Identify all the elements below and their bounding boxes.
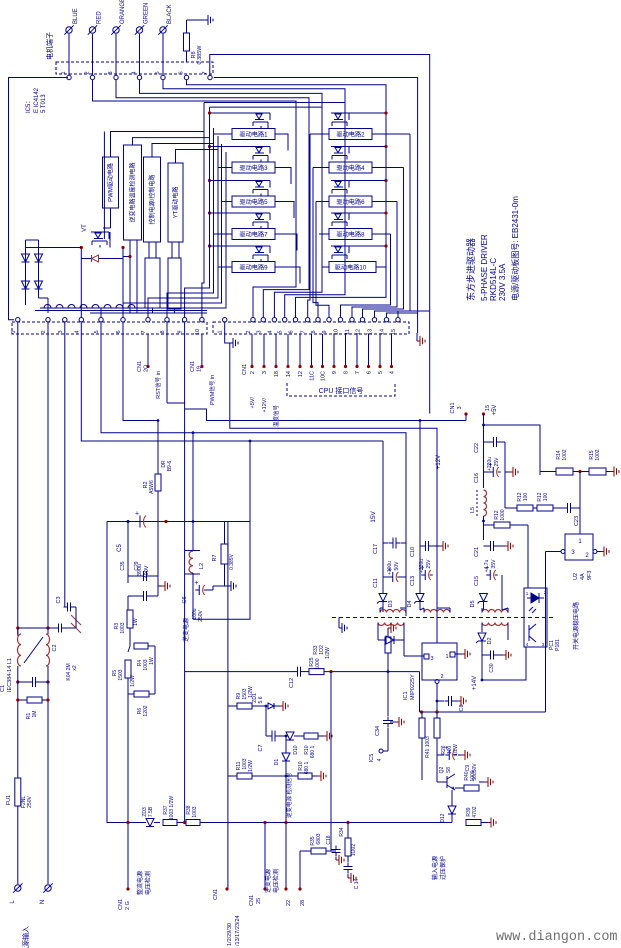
CN3 pin 3 xyxy=(256,318,265,334)
wire middle bus 1 xyxy=(308,134,310,317)
svg-text:9: 9 xyxy=(178,330,184,333)
ground C14 xyxy=(348,873,356,883)
svg-text:C6: C6 xyxy=(182,596,188,603)
wire C12 row xyxy=(185,672,420,712)
svg-text:4: 4 xyxy=(267,330,273,333)
svg-text:+100u: +100u xyxy=(387,561,393,575)
svg-text:IC5: IC5 xyxy=(369,754,375,763)
capacitor C10 xyxy=(410,541,433,557)
svg-text:CPU 接口信号: CPU 接口信号 xyxy=(319,386,364,395)
resistor R3 xyxy=(114,610,139,646)
junction y712 xyxy=(420,710,439,713)
svg-text:+4.7u: +4.7u xyxy=(484,559,490,572)
wire mosfet top rail A xyxy=(204,103,345,284)
diode D2 aux xyxy=(476,633,493,655)
transformer winding 12V xyxy=(420,608,450,613)
wire CN2 pin5 to return xyxy=(101,322,406,616)
wire PC1 pin1 xyxy=(527,525,529,588)
drive circuit block 6 xyxy=(329,196,372,207)
svg-text:22: 22 xyxy=(286,900,292,906)
motor terminal ORANGE xyxy=(111,0,126,62)
junction D1 R11 xyxy=(285,775,288,823)
svg-text:电源输入: 电源输入 xyxy=(21,926,30,948)
resistor R6 xyxy=(128,691,155,717)
svg-text:25: 25 xyxy=(256,898,262,904)
svg-text:+12V/: +12V/ xyxy=(262,398,268,413)
svg-text:RED: RED xyxy=(97,11,103,24)
junction left row 1 xyxy=(208,111,211,114)
svg-text:+5V: +5V xyxy=(492,405,498,416)
connector motor pin 1 xyxy=(61,71,71,79)
wire B1 left drop xyxy=(103,132,105,240)
svg-text:C21: C21 xyxy=(474,547,480,557)
CN1 pin 28 xyxy=(298,851,306,906)
svg-text:CN1: CN1 xyxy=(190,361,196,372)
motor terminal RED xyxy=(88,11,103,62)
block tab B4 xyxy=(168,242,181,313)
svg-text:/13/17/23/24: /13/17/23/24 xyxy=(235,915,241,946)
svg-text:PWM驱动电路: PWM驱动电路 xyxy=(107,163,115,202)
transformer winding 15V xyxy=(380,608,406,613)
op-amp U2 xyxy=(561,534,597,580)
ground C10 xyxy=(432,541,448,551)
capacitor C15 xyxy=(474,559,498,586)
wire left bus 5 xyxy=(123,144,222,317)
svg-text:L5: L5 xyxy=(470,507,476,513)
svg-text:1003: 1003 xyxy=(192,806,198,817)
svg-text:R7: R7 xyxy=(212,554,218,561)
svg-text:100: 100 xyxy=(523,493,529,502)
capacitor C18 xyxy=(326,835,341,860)
svg-text:1: 1 xyxy=(61,71,67,74)
svg-text:6: 6 xyxy=(179,71,185,74)
svg-text:C3: C3 xyxy=(56,596,62,603)
capacitor C14 xyxy=(344,863,361,890)
wire strip3 pin14 stub xyxy=(387,313,418,317)
drive circuit block 2 xyxy=(329,129,372,140)
svg-text:7: 7 xyxy=(202,71,208,74)
svg-text:U2: U2 xyxy=(573,573,579,580)
svg-text:5.6: 5.6 xyxy=(258,696,264,703)
svg-text:680 1: 680 1 xyxy=(304,762,310,775)
diode D12 xyxy=(440,790,456,823)
junction choke xyxy=(16,626,49,683)
svg-text:1O02: 1O02 xyxy=(351,844,357,856)
svg-text:25V: 25V xyxy=(426,559,432,569)
junction R25 xyxy=(329,670,332,673)
junction VT xyxy=(80,246,125,249)
transistor V2 xyxy=(331,113,386,126)
CN1 cpu pin 7 xyxy=(355,334,361,374)
wire x107 down xyxy=(107,522,140,823)
wire motor pin 2 bus xyxy=(93,80,297,317)
label IC5 xyxy=(26,87,47,113)
wire R33 down C34 xyxy=(387,672,389,716)
svg-text:7: 7 xyxy=(141,330,147,333)
svg-text:9F3: 9F3 xyxy=(587,571,593,580)
svg-text:逆变电源: 逆变电源 xyxy=(264,869,272,893)
ground R7 xyxy=(213,581,236,591)
junction right row 1 xyxy=(384,111,387,114)
junction R14 R15 xyxy=(578,470,581,473)
bridge rectifier diodes xyxy=(22,240,82,313)
CN1 cpu pin 3 xyxy=(262,334,268,374)
wire mosfet5 to box xyxy=(261,194,268,197)
junction right row 5 xyxy=(384,244,387,247)
svg-text:1000: 1000 xyxy=(315,658,321,669)
inductor L5 xyxy=(470,490,487,516)
svg-text:MIP0225Y: MIP0225Y xyxy=(410,674,416,700)
svg-text:3: 3 xyxy=(571,550,575,556)
drive circuit block 7 xyxy=(232,229,275,240)
svg-text:L2: L2 xyxy=(199,563,205,569)
transformer aux winding xyxy=(482,623,508,641)
wire VT to block2 xyxy=(123,255,132,258)
label +5V +12V xyxy=(250,397,280,427)
motor terminal label 电机端子 xyxy=(45,32,54,60)
block 控制电源/控制电路 xyxy=(144,157,161,242)
diode D1 xyxy=(274,736,290,776)
wire motor pin 5 bus xyxy=(163,80,345,317)
ground CN3 pin1 xyxy=(225,322,238,348)
drive circuit block 5 xyxy=(232,196,275,207)
inductor L2 xyxy=(185,522,205,620)
wire mosfet9 source xyxy=(275,267,300,284)
svg-text:R34: R34 xyxy=(339,827,345,836)
CN3 pin 11 xyxy=(345,318,354,335)
svg-text:L: L xyxy=(10,900,16,904)
ground C21 xyxy=(497,541,513,551)
wire x227 down xyxy=(227,522,229,890)
svg-text:0.385V: 0.385V xyxy=(229,553,235,570)
wire VT source down xyxy=(100,232,110,248)
svg-text:9: 9 xyxy=(332,371,338,374)
watermark xyxy=(496,930,618,945)
svg-text:1000: 1000 xyxy=(500,509,506,520)
svg-text:RST信号 in: RST信号 in xyxy=(154,371,162,399)
capacitor C22 xyxy=(474,437,505,472)
svg-text:6803: 6803 xyxy=(316,833,322,844)
svg-text:ORANGE: ORANGE xyxy=(120,0,126,24)
svg-text:C9: C9 xyxy=(465,765,471,772)
CN2 pin 4 xyxy=(74,318,83,334)
junction R1 row xyxy=(16,698,49,701)
svg-text:驱动电路6: 驱动电路6 xyxy=(336,198,365,206)
svg-text:CN1: CN1 xyxy=(137,361,143,372)
wire main bus y825 xyxy=(200,822,452,824)
wire drive2 left xyxy=(310,133,329,135)
svg-text:5: 5 xyxy=(378,371,384,374)
svg-text:19: 19 xyxy=(197,366,203,372)
ground R10a xyxy=(324,731,332,741)
capacitor C16 xyxy=(474,457,501,483)
svg-text:18: 18 xyxy=(274,371,280,377)
wire mosfet7 to box xyxy=(261,226,268,229)
junction C5 xyxy=(127,520,168,523)
CN2 pin 1 xyxy=(11,318,20,334)
connector motor pin 3 xyxy=(108,71,118,79)
svg-text:1W: 1W xyxy=(133,618,139,626)
resistor R25 xyxy=(309,657,324,674)
svg-text:+5V/: +5V/ xyxy=(250,397,256,409)
svg-text:CN1: CN1 xyxy=(242,364,248,375)
CN1 cpu pin 6 xyxy=(367,334,373,374)
ground near R8 xyxy=(199,15,213,25)
svg-text:驱动电路1: 驱动电路1 xyxy=(239,131,268,139)
wire +12V rail xyxy=(419,419,442,594)
wire mosfet1 source xyxy=(275,134,288,151)
transistor Q2 xyxy=(437,755,455,790)
svg-text:D2: D2 xyxy=(487,637,493,644)
svg-text:D10: D10 xyxy=(293,745,299,754)
wire middle bus 3 xyxy=(316,202,329,318)
transistor V9 xyxy=(210,246,271,259)
junction L2 xyxy=(192,520,195,523)
junction right row 3 xyxy=(384,179,387,182)
capacitor C2 xyxy=(18,624,78,681)
svg-text:12: 12 xyxy=(356,329,362,335)
svg-text:IC1: IC1 xyxy=(403,691,409,700)
svg-text:5: 5 xyxy=(155,71,161,74)
svg-text:1/2W: 1/2W xyxy=(248,760,254,772)
drive circuit block 10 xyxy=(329,262,376,273)
CN1 cpu pin 9 xyxy=(332,334,338,374)
svg-text:1: 1 xyxy=(218,330,224,333)
svg-text:C18: C18 xyxy=(326,835,332,844)
wire C5 left down xyxy=(127,522,129,584)
CN3 pin 5 xyxy=(278,318,287,334)
svg-text:+: + xyxy=(194,580,198,587)
junction R2 xyxy=(157,419,160,422)
transistor V1 xyxy=(210,113,271,126)
svg-text:4: 4 xyxy=(132,71,138,74)
svg-text:电压检测: 电压检测 xyxy=(272,869,280,893)
connector motor pin 7 xyxy=(202,71,212,79)
resistor R39 xyxy=(466,806,481,825)
wire outer frame left xyxy=(9,78,69,320)
svg-text:7.5B: 7.5B xyxy=(148,806,154,817)
CN1 cpu pin 2 xyxy=(250,334,256,374)
svg-text:250V: 250V xyxy=(198,610,204,622)
wire motor pin 6 bus xyxy=(187,80,387,317)
zener ZD1 xyxy=(252,693,280,709)
resistor R34 xyxy=(339,823,357,863)
CN1 cpu pin 18 xyxy=(274,334,280,377)
diode D10 xyxy=(286,732,304,755)
svg-text:C29: C29 xyxy=(134,561,140,570)
transistor V5 xyxy=(210,181,271,194)
resistor R2 xyxy=(143,421,173,522)
svg-text:14: 14 xyxy=(286,371,292,377)
zener D5 xyxy=(470,575,502,610)
svg-text:2: 2 xyxy=(250,371,256,374)
wire drive3 left xyxy=(218,167,233,169)
CN1 cpu pin 14 xyxy=(286,334,292,377)
CN2 pin 2 xyxy=(41,318,50,334)
transistor V4 xyxy=(331,147,386,160)
wire 15V rail xyxy=(382,441,384,612)
svg-text:电源/驱动板图号: EB2431-0m: 电源/驱动板图号: EB2431-0m xyxy=(510,196,520,301)
svg-text:驱动电路7: 驱动电路7 xyxy=(239,231,268,239)
svg-text:1/2/29/30: 1/2/29/30 xyxy=(227,923,233,946)
capacitor C3 xyxy=(56,596,76,611)
svg-text:C35: C35 xyxy=(120,561,126,570)
svg-text:R41 1003: R41 1003 xyxy=(425,736,431,758)
resistor R1 xyxy=(18,697,48,719)
wire y712 bus xyxy=(420,711,546,713)
svg-text:1003 1/2W: 1003 1/2W xyxy=(169,796,175,820)
resistor R37 xyxy=(163,796,186,826)
svg-text:1: 1 xyxy=(526,591,529,596)
svg-text:D1: D1 xyxy=(274,759,280,766)
block tab B3 xyxy=(145,242,160,313)
ground U2 xyxy=(597,547,609,557)
CN2 pin 7 xyxy=(141,318,150,334)
wire rail A xyxy=(185,409,466,421)
svg-text:3: 3 xyxy=(542,642,545,647)
svg-text:2 G: 2 G xyxy=(125,901,131,910)
transistor V3 xyxy=(210,147,271,160)
svg-text:11C: 11C xyxy=(310,371,316,381)
svg-text:IEC384-14 L1: IEC384-14 L1 xyxy=(7,658,13,692)
svg-text:4702: 4702 xyxy=(472,806,478,817)
svg-text:C15: C15 xyxy=(474,576,480,586)
ground R39 xyxy=(481,818,496,828)
wire hop row xyxy=(40,305,207,313)
svg-text:2: 2 xyxy=(585,553,589,559)
label inverter supply xyxy=(182,618,190,642)
connector strip CN2 dashed box xyxy=(12,311,207,335)
svg-text:逆变电源 检测信号: 逆变电源 检测信号 xyxy=(285,772,293,818)
transistor V8 xyxy=(331,213,386,226)
capacitor C7 xyxy=(258,706,287,752)
ground R33 xyxy=(388,623,396,633)
resistor R8 xyxy=(184,20,204,64)
wire mosfet1 to box xyxy=(261,126,268,129)
wire CN2 pins 1-3 down xyxy=(18,322,65,636)
capacitor C5 xyxy=(117,511,150,579)
svg-text:4A: 4A xyxy=(580,573,586,580)
svg-text:PWM信号 in: PWM信号 in xyxy=(208,375,216,405)
wire block2 top xyxy=(133,138,210,145)
CN1 pin group bottom xyxy=(213,887,241,946)
svg-text:1503: 1503 xyxy=(118,669,124,680)
capacitor C13 xyxy=(410,559,433,586)
wire x331 down xyxy=(331,672,336,851)
label 15V xyxy=(370,511,377,523)
transformer core dashed line xyxy=(332,617,556,619)
wire mosfet3 source xyxy=(275,168,291,185)
wire middle bus 2 xyxy=(313,168,318,318)
svg-text:2O: 2O xyxy=(144,364,150,372)
CN1 cpu pin 5 xyxy=(378,334,384,374)
svg-text:BLACK: BLACK xyxy=(167,4,173,24)
motor terminal BLUE xyxy=(64,8,79,62)
wire inner frame right xyxy=(214,78,418,334)
connector strip CN3 dashed box xyxy=(213,322,409,334)
capacitor C21 xyxy=(474,541,498,557)
svg-text:C30: C30 xyxy=(489,663,495,672)
wire rail B feedback xyxy=(230,343,437,643)
resistor R40 xyxy=(455,770,479,791)
connector motor pin 2 xyxy=(85,71,95,79)
svg-text:100: 100 xyxy=(543,493,549,502)
ground C9 xyxy=(458,750,470,760)
svg-text:28: 28 xyxy=(300,900,306,906)
svg-text:4: 4 xyxy=(526,642,529,647)
block YT驱动电路 xyxy=(168,163,183,242)
wire mains verticals xyxy=(18,666,48,884)
svg-text:1003: 1003 xyxy=(120,622,126,633)
wire +5V rail xyxy=(484,414,541,488)
resistor R10b xyxy=(298,761,318,779)
svg-text:4: 4 xyxy=(390,371,396,374)
wire drive8 left xyxy=(319,233,329,235)
svg-text:+220u: +220u xyxy=(419,559,425,573)
drive circuit block 4 xyxy=(329,162,372,173)
wire R8 to connector xyxy=(186,51,188,62)
label inverter detect xyxy=(285,772,293,818)
svg-text:3: 3 xyxy=(256,330,262,333)
CN3 pin 15 xyxy=(391,318,400,336)
svg-text:4: 4 xyxy=(74,330,80,333)
transistor V6 xyxy=(331,181,386,194)
inductor L1 common mode choke xyxy=(0,628,50,692)
junction left row 5 xyxy=(208,244,211,247)
resistor R4 xyxy=(134,643,155,694)
ground C35 xyxy=(158,522,170,597)
svg-text:1202: 1202 xyxy=(143,705,149,716)
label mains input xyxy=(21,926,30,948)
junction loop xyxy=(192,431,252,442)
wire mosfet5 source xyxy=(275,202,294,219)
svg-text:5-PHASE DRIVER: 5-PHASE DRIVER xyxy=(480,234,489,301)
transformer winding 5V xyxy=(482,608,508,613)
svg-text:C22: C22 xyxy=(474,443,480,453)
wire right bus 3 xyxy=(363,168,404,318)
svg-text:+14V: +14V xyxy=(472,676,478,690)
transistor V10 xyxy=(331,246,386,259)
CN3 pin 9 xyxy=(322,318,331,334)
resistor R14 xyxy=(540,449,573,475)
svg-text:D4: D4 xyxy=(407,600,413,607)
junction +5V xyxy=(482,424,485,427)
wire left bus 4 xyxy=(148,136,218,317)
wire motor pin 4 bus xyxy=(140,80,323,317)
svg-text:D3: D3 xyxy=(388,600,394,607)
svg-text:C12: C12 xyxy=(289,678,295,688)
CN3 pin 4 xyxy=(267,318,276,334)
CN1 pin 19 PWM xyxy=(190,334,216,405)
svg-text:C5: C5 xyxy=(117,544,123,552)
block 逆变电路温度检测电路 xyxy=(124,145,142,240)
svg-text:4: 4 xyxy=(377,758,383,761)
svg-text:12: 12 xyxy=(298,371,304,377)
resistor R33 xyxy=(313,628,391,672)
CN3 pin 7 xyxy=(301,318,310,334)
CN1 cpu pin 11C xyxy=(310,334,316,381)
title block text xyxy=(465,196,520,301)
wire right bus 2 xyxy=(352,202,397,318)
wire right bus 1 xyxy=(341,234,391,317)
motor terminal GREEN xyxy=(135,3,150,62)
svg-text:8: 8 xyxy=(160,330,166,333)
block PWM驱动电路 xyxy=(103,157,119,208)
ground R15 xyxy=(606,467,619,477)
svg-text:8: 8 xyxy=(344,371,350,374)
CN3 pin 1 xyxy=(218,318,227,334)
svg-text:1/2W: 1/2W xyxy=(325,647,331,659)
